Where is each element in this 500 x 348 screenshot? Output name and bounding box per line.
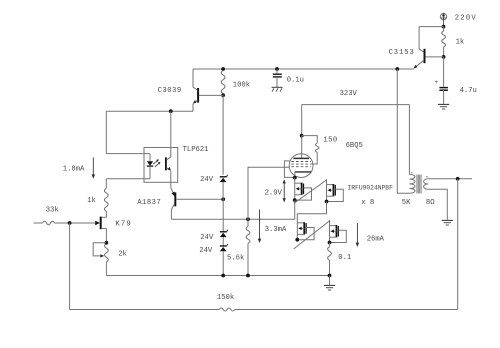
current arrow 26mA [356, 223, 358, 245]
svg-text:24V: 24V [200, 176, 214, 184]
transistor Q1 C3153 [413, 27, 443, 69]
node +220V top [442, 25, 446, 29]
transistor Q3 A1837 [171, 186, 223, 219]
2k wiper [93, 243, 106, 258]
svg-text:100k: 100k [233, 82, 250, 90]
svg-text:2k: 2k [118, 250, 127, 258]
power terminal 220V [440, 13, 446, 27]
phase dot secondary [426, 176, 428, 178]
svg-text:150k: 150k [217, 294, 234, 302]
node rail/0.1u [275, 67, 279, 71]
opto phototransistor [166, 111, 171, 186]
svg-text:5K: 5K [402, 199, 411, 207]
phase dot primary [411, 172, 413, 174]
wire feedback bottom right [235, 309, 458, 311]
node 5.6k top [246, 217, 250, 221]
svg-text:33k: 33k [46, 206, 59, 214]
mosfet M3 IRFU9024NPBF [296, 217, 298, 240]
resistor 33k (input) [43, 221, 70, 224]
node input/gate/feedback [68, 221, 72, 225]
wire bottom rail [106, 275, 329, 277]
ground (output stage) [324, 276, 335, 291]
Vgs arrow 2.9V [283, 179, 286, 202]
wire plate drop [301, 105, 303, 136]
wire series diag 1 [294, 180, 327, 203]
node rail/zeners [221, 274, 225, 278]
svg-text:C3039: C3039 [158, 87, 182, 95]
svg-text:2.9V: 2.9V [265, 189, 283, 197]
optocoupler U1 TLP621 box [144, 148, 178, 183]
wire M1 drain to rail [294, 200, 296, 219]
transformer T1 primary 5K [397, 69, 415, 193]
node A1837 base [221, 197, 225, 201]
ground (0.1u) hatched [272, 87, 283, 91]
svg-text:220V: 220V [455, 14, 477, 22]
svg-text:C3153: C3153 [389, 49, 415, 57]
zener D1 24V [220, 175, 228, 200]
node 100k bottom [221, 93, 225, 97]
input terminal [34, 222, 43, 224]
resistor 100k [221, 71, 225, 96]
svg-text:26mA: 26mA [367, 235, 385, 243]
capacitor 0.1u [273, 69, 282, 87]
svg-text:1k: 1k [87, 197, 96, 205]
svg-text:8Ω: 8Ω [426, 199, 435, 207]
svg-text:5.6k: 5.6k [227, 255, 244, 263]
tube cathode [295, 172, 311, 178]
wire primary top [408, 105, 410, 175]
zener D2 24V [220, 230, 228, 246]
wire g1 [248, 167, 289, 219]
transformer core [417, 175, 421, 194]
wire base to D2 [222, 199, 224, 231]
svg-text:4.7u: 4.7u [460, 87, 477, 95]
wire feedback bottom left [70, 309, 220, 311]
zener D3 24V [220, 244, 228, 276]
svg-text:150: 150 [323, 137, 337, 145]
svg-text:TLP621: TLP621 [183, 146, 209, 154]
g3-cathode strap [284, 161, 294, 178]
wire M2 to M3 [297, 202, 326, 218]
node C3153 base [442, 55, 446, 59]
wire series diag 2 [294, 221, 330, 249]
mosfet M4 IRFU9024NPBF [329, 220, 331, 243]
resistor 0.1 (source) [328, 243, 332, 276]
tube grids (dashed) [291, 162, 311, 167]
wire 220V rail to collector [419, 26, 443, 28]
node output/feedback [456, 177, 460, 181]
svg-text:6BQ5: 6BQ5 [346, 142, 363, 150]
tube V1 6BQ5 envelope [289, 154, 313, 178]
svg-text:K79: K79 [115, 221, 132, 229]
ground (secondary) [442, 219, 453, 221]
current arrow 1.8mA [92, 157, 94, 176]
svg-text:3.3mA: 3.3mA [265, 226, 287, 234]
svg-text:24V: 24V [200, 234, 214, 242]
svg-text:323V: 323V [340, 90, 358, 98]
resistor 150k (feedback) [219, 308, 234, 311]
svg-text:0.1: 0.1 [338, 254, 351, 262]
resistor 5.6k [246, 219, 250, 275]
svg-text:1k: 1k [456, 39, 465, 47]
tube plate [293, 136, 309, 159]
node plate/150 [300, 134, 304, 138]
svg-text:24V: 24V [199, 247, 213, 255]
wire 323V [302, 104, 410, 106]
resistor 150 (g2 stopper) [302, 136, 319, 164]
wire feedback to input [69, 223, 71, 310]
svg-text:A1837: A1837 [137, 199, 161, 207]
svg-text:+: + [434, 79, 438, 86]
node cathode [293, 176, 297, 180]
transformer T1 secondary 8ohm [424, 179, 429, 190]
capacitor C 4.7u (polarized) [434, 57, 448, 104]
svg-text:1.8mA: 1.8mA [63, 166, 85, 174]
node K79 source [105, 241, 109, 245]
transistor Q2 C3039 [193, 69, 224, 111]
mosfet M1 IRFU9024NPBF [294, 178, 296, 201]
LED (opto input) [147, 154, 153, 179]
mosfet M2 IRFU9024NPBF [326, 179, 328, 202]
wire feedback vertical [457, 179, 459, 310]
wire B+ rail [193, 68, 413, 70]
wire LED anode [106, 111, 150, 153]
potentiometer 2k [105, 244, 109, 276]
wire secondary bottom [428, 189, 447, 220]
wire LED cathode [106, 179, 150, 189]
transistor K79 (SIT) [70, 211, 107, 243]
wire secondary top [428, 178, 472, 180]
resistor 1k (cathode) [104, 188, 108, 211]
resistor 1k (supply) [442, 27, 446, 57]
node rail/100k [221, 67, 225, 71]
node opto collector [169, 109, 173, 113]
node rail/5.6k [246, 274, 250, 278]
svg-text:IRFU9024NPBF: IRFU9024NPBF [348, 184, 394, 191]
node rail/0.1 [328, 274, 332, 278]
wire C3039 emitter [106, 110, 193, 112]
svg-text:x 8: x 8 [361, 199, 374, 207]
wire 100k to zeners [222, 95, 224, 174]
node rail/transformer [395, 67, 399, 71]
ground (4.7u) [438, 103, 449, 105]
svg-text:0.1u: 0.1u [287, 76, 304, 84]
wire A1837 collector rail [171, 218, 294, 220]
current arrow 3.3mA [259, 210, 261, 241]
light arrows [153, 159, 160, 167]
